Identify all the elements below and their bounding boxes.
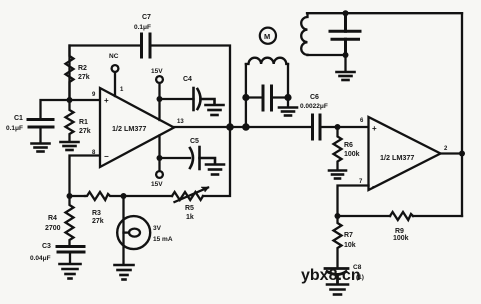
ground tank1 xyxy=(279,108,297,116)
svg-text:0.04μF: 0.04μF xyxy=(30,255,51,262)
svg-text:R7: R7 xyxy=(344,232,353,239)
svg-text:C4: C4 xyxy=(183,76,192,83)
wire top feedback right segment xyxy=(151,46,231,128)
resistor R2 xyxy=(66,46,74,101)
capacitor tank2 xyxy=(330,13,360,55)
ground lamp xyxy=(115,265,134,280)
tank2 bottom wire xyxy=(308,54,346,56)
ground C4 xyxy=(206,105,224,115)
wire node A to C1 xyxy=(41,100,70,119)
lamp DS1 xyxy=(117,216,150,249)
wire C6 to op-amp2 xyxy=(320,126,369,128)
ground C5 xyxy=(206,165,224,175)
svg-text:15V: 15V xyxy=(151,181,163,188)
wire tank2 to ground xyxy=(344,55,346,72)
wire bottom feedback xyxy=(70,195,86,197)
ground C1 xyxy=(32,144,50,152)
R5 arrow xyxy=(175,187,209,202)
wire C3 to ground xyxy=(69,252,71,264)
svg-text:15 mA: 15 mA xyxy=(153,236,173,243)
svg-text:R9: R9 xyxy=(395,228,404,235)
svg-text:−: − xyxy=(104,152,109,161)
capacitor C7 xyxy=(142,34,151,57)
wire lamp branch xyxy=(122,196,124,265)
resistor R5 (pot) xyxy=(172,192,203,200)
ground C3 xyxy=(60,264,81,279)
svg-text:R1: R1 xyxy=(79,119,88,126)
ground tank2 xyxy=(337,72,355,80)
wire op-amp2 output xyxy=(441,152,463,154)
wire right edge xyxy=(461,13,463,216)
svg-text:M: M xyxy=(264,32,270,41)
svg-text:3V: 3V xyxy=(153,225,162,232)
resistor R6 xyxy=(334,127,342,170)
svg-text:NC: NC xyxy=(109,53,119,60)
wire op-amp pin 8 xyxy=(70,156,101,197)
resistor R3 xyxy=(85,192,124,200)
svg-text:15V: 15V xyxy=(151,68,163,75)
wire lamp junction to R5 xyxy=(124,195,173,197)
svg-text:+: + xyxy=(372,124,377,133)
op-amp U1b triangle xyxy=(369,117,441,190)
svg-text:R6: R6 xyxy=(344,142,353,149)
svg-text:−: − xyxy=(372,182,377,191)
svg-text:1/2 LM377: 1/2 LM377 xyxy=(380,153,414,162)
svg-text:1/2 LM377: 1/2 LM377 xyxy=(112,124,146,133)
+15V terminal and wire xyxy=(156,76,163,120)
svg-text:ybx8.cn: ybx8.cn xyxy=(301,267,361,284)
resistor R7 xyxy=(334,216,342,269)
svg-text:10k: 10k xyxy=(344,242,356,249)
capacitor C4 xyxy=(194,88,215,110)
wire feedback bottom xyxy=(338,215,463,217)
svg-text:27k: 27k xyxy=(92,218,104,225)
svg-text:0.1μF: 0.1μF xyxy=(6,125,23,132)
inductor L2 xyxy=(301,13,307,55)
tank1 left leg xyxy=(245,64,247,127)
tank1 right leg xyxy=(287,64,289,107)
ground R1 xyxy=(61,142,79,150)
svg-text:2700: 2700 xyxy=(45,225,61,232)
capacitor C5 xyxy=(190,147,215,169)
svg-text:R3: R3 xyxy=(92,210,101,217)
ground R6 xyxy=(329,171,346,179)
svg-text:C1: C1 xyxy=(14,115,23,122)
svg-text:C5: C5 xyxy=(190,138,199,145)
svg-text:R2: R2 xyxy=(78,65,87,72)
svg-text:0.0022μF: 0.0022μF xyxy=(300,103,328,110)
capacitor C8 xyxy=(325,269,348,285)
inductor L1 xyxy=(246,58,288,64)
capacitor C6 xyxy=(313,115,321,139)
ground C8 xyxy=(327,285,348,295)
op-amp U1a triangle xyxy=(100,88,174,167)
NC terminal xyxy=(112,65,119,96)
resistor R9 xyxy=(390,212,413,220)
resistor R1 xyxy=(66,100,74,142)
wire op-amp2 inverting input feedback xyxy=(338,186,369,217)
wire node A to op-amp pin 9 xyxy=(70,99,101,101)
wire R5 to output node xyxy=(203,127,230,196)
wire output rail xyxy=(174,126,313,128)
capacitor C1 xyxy=(28,120,53,128)
svg-text:13: 13 xyxy=(177,119,184,125)
-15V terminal and wire xyxy=(156,136,163,178)
meter M circle xyxy=(260,28,276,44)
svg-text:C6: C6 xyxy=(310,94,319,101)
tank1 bottom wire xyxy=(246,96,288,98)
capacitor C3 xyxy=(57,247,84,253)
svg-text:R4: R4 xyxy=(48,215,57,222)
wire top feedback left segment xyxy=(70,46,142,101)
svg-text:100k: 100k xyxy=(344,151,360,158)
svg-text:C3: C3 xyxy=(42,243,51,250)
tank2 top wire xyxy=(307,12,462,14)
svg-text:27k: 27k xyxy=(78,74,90,81)
svg-text:R5: R5 xyxy=(185,205,194,212)
capacitor tank1 xyxy=(263,86,272,110)
wire C1 to ground xyxy=(39,127,41,143)
wire C4 branch xyxy=(160,98,194,100)
svg-text:1k: 1k xyxy=(186,214,194,221)
resistor R4 xyxy=(66,196,74,247)
svg-text:27k: 27k xyxy=(79,128,91,135)
svg-text:100k: 100k xyxy=(393,235,409,242)
svg-text:0.1μF: 0.1μF xyxy=(134,24,151,31)
wire C5 branch xyxy=(160,157,191,159)
svg-text:C7: C7 xyxy=(142,14,151,21)
svg-text:+: + xyxy=(104,96,109,105)
